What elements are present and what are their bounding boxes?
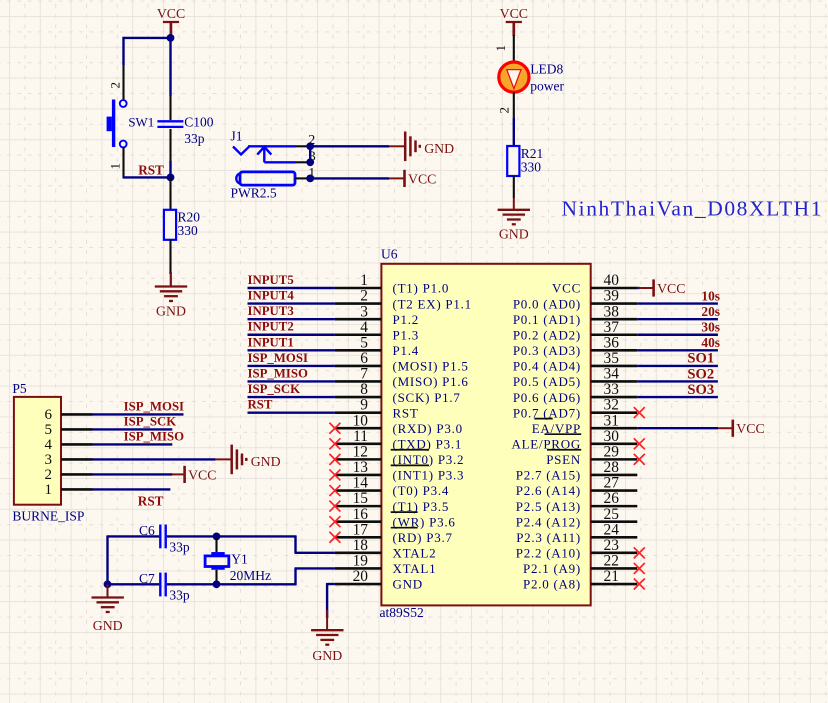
svg-text:33p: 33p (184, 131, 205, 146)
wire (93, 488, 171, 490)
pin 3 (J1) (296, 161, 310, 163)
svg-text:2: 2 (108, 82, 123, 89)
wire (309, 146, 311, 162)
pin 12 (U6) (INT0) P3.2 (335, 458, 382, 461)
wire (123, 176, 171, 178)
svg-text:GND: GND (393, 577, 423, 592)
pin 2 (P5) (61, 473, 93, 476)
svg-text:31: 31 (604, 412, 619, 429)
wire (248, 396, 335, 398)
svg-text:at89S52: at89S52 (380, 605, 424, 620)
svg-text:VCC: VCC (157, 6, 185, 21)
wire (310, 177, 389, 179)
svg-text:INPUT2: INPUT2 (248, 320, 294, 334)
ground GND (crystal) (92, 598, 124, 613)
svg-text:P2.0 (A8): P2.0 (A8) (523, 577, 581, 592)
pin 35 (U6) P0.4 (AD4) (591, 365, 638, 368)
wire (327, 583, 335, 585)
wire (248, 365, 335, 367)
node junction (167, 174, 175, 182)
node junction (104, 580, 112, 588)
svg-text:P0.0 (AD0): P0.0 (AD0) (513, 296, 581, 311)
svg-text:2: 2 (360, 288, 368, 305)
svg-text:INPUT5: INPUT5 (248, 273, 294, 287)
svg-text:INPUT3: INPUT3 (248, 304, 294, 318)
svg-text:8: 8 (360, 381, 368, 398)
svg-text:30: 30 (604, 428, 620, 445)
pin 37 (U6) P0.2 (AD2) (591, 333, 638, 336)
pin 2 (U6) (T2 EX) P1.1 (335, 302, 382, 305)
svg-text:32: 32 (604, 397, 619, 414)
pin 36 (U6) P0.3 (AD3) (591, 349, 638, 352)
pin 6 (P5) (61, 413, 93, 416)
svg-text:33: 33 (604, 381, 620, 398)
svg-text:P0.4 (AD4): P0.4 (AD4) (513, 359, 581, 374)
pin 20 (U6) GND (335, 583, 382, 586)
svg-text:18: 18 (353, 537, 369, 554)
svg-text:J1: J1 (231, 129, 243, 144)
wire (108, 583, 160, 585)
svg-text:20s: 20s (701, 304, 720, 319)
node junction (306, 142, 314, 150)
svg-text:21: 21 (604, 568, 619, 585)
LED LED8 (513, 35, 515, 62)
pin 21 (U6) P2.0 (A8) (591, 583, 638, 586)
pin 19 (U6) XTAL1 (335, 567, 382, 570)
pin 1 (J1) (295, 177, 311, 179)
wire (93, 443, 173, 445)
resistor R20 (169, 177, 171, 210)
pin 8 (U6) (SCK) P1.7 (335, 396, 382, 399)
no-connect X (634, 407, 645, 418)
svg-text:11: 11 (353, 428, 368, 445)
svg-text:14: 14 (353, 475, 369, 492)
svg-text:6: 6 (360, 350, 368, 367)
svg-text:ISP_SCK: ISP_SCK (124, 415, 177, 429)
svg-text:RST: RST (138, 494, 164, 509)
svg-text:RST: RST (393, 405, 419, 420)
svg-text:22: 22 (604, 553, 619, 570)
svg-text:P5: P5 (12, 381, 27, 396)
overline INT1 (pin 13) (391, 464, 429, 466)
svg-text:ISP_MOSI: ISP_MOSI (248, 351, 308, 365)
svg-text:ISP_SCK: ISP_SCK (248, 382, 301, 396)
capacitor C7 (159, 573, 161, 597)
wire (513, 93, 515, 118)
svg-text:330: 330 (178, 223, 199, 238)
svg-text:C7: C7 (139, 571, 155, 586)
node junction (167, 34, 175, 42)
IC U6 at89S52 body (381, 264, 590, 606)
svg-text:VCC: VCC (657, 281, 685, 296)
wire (248, 380, 335, 382)
svg-text:5: 5 (45, 422, 53, 438)
pin 29 (U6) PSEN (591, 458, 638, 461)
wire (637, 427, 718, 429)
svg-text:33p: 33p (169, 540, 190, 555)
crystal Y1 (215, 537, 217, 552)
no-connect X (329, 532, 340, 543)
capacitor C6 (159, 525, 161, 549)
svg-text:P2.2 (A10): P2.2 (A10) (516, 546, 581, 561)
svg-text:27: 27 (604, 475, 620, 492)
svg-text:GND: GND (424, 141, 454, 156)
svg-text:5: 5 (360, 334, 368, 351)
svg-text:20: 20 (353, 568, 369, 585)
overline EA (pin 31) (534, 418, 552, 420)
node junction (213, 533, 221, 541)
svg-text:(SCK) P1.7: (SCK) P1.7 (393, 390, 461, 405)
no-connect X (329, 423, 340, 434)
no-connect X (329, 501, 340, 512)
no-connect X (329, 485, 340, 496)
pin 28 (U6) P2.7 (A15) (591, 474, 638, 477)
svg-text:GND: GND (251, 454, 281, 469)
svg-text:ISP_MOSI: ISP_MOSI (124, 400, 184, 414)
svg-text:40s: 40s (701, 335, 720, 350)
svg-text:19: 19 (353, 553, 369, 570)
svg-text:P2.4 (A12): P2.4 (A12) (516, 514, 581, 529)
wire (93, 428, 173, 430)
svg-text:15: 15 (353, 490, 369, 507)
svg-text:P0.6 (AD6): P0.6 (AD6) (513, 390, 581, 405)
svg-text:power: power (530, 79, 564, 94)
ground GND (U6 pin 20) (311, 630, 343, 645)
connector P5 body (14, 397, 61, 505)
node junction (213, 580, 221, 588)
pin 1 (P5) (61, 488, 93, 491)
svg-text:P2.5 (A13): P2.5 (A13) (516, 499, 581, 514)
no-connect X (329, 454, 340, 465)
pin 27 (U6) P2.6 (A14) (591, 489, 638, 492)
svg-text:BURNE_ISP: BURNE_ISP (12, 509, 84, 524)
svg-text:PSEN: PSEN (546, 452, 581, 467)
wire (106, 535, 108, 585)
pin 5 (U6) P1.4 (335, 349, 382, 352)
pin 16 (U6) (WR) P3.6 (335, 520, 382, 523)
svg-text:P2.3 (A11): P2.3 (A11) (516, 530, 581, 545)
svg-text:GND: GND (93, 618, 123, 633)
svg-text:XTAL2: XTAL2 (393, 546, 437, 561)
wire (93, 473, 173, 475)
svg-text:P0.3 (AD3): P0.3 (AD3) (513, 343, 581, 358)
pin 3 (P5) (61, 458, 93, 461)
power port VCC (pin 40) (652, 279, 655, 296)
ground GND (P5 pin 3) (232, 445, 247, 475)
wire (167, 583, 296, 585)
power port VCC (P5 pin 2) (183, 466, 186, 483)
svg-text:9: 9 (360, 397, 368, 414)
svg-text:330: 330 (521, 160, 542, 175)
svg-text:ISP_MISO: ISP_MISO (124, 430, 184, 444)
svg-text:10: 10 (353, 412, 369, 429)
wire (248, 318, 335, 320)
svg-text:39: 39 (604, 288, 620, 305)
no-connect X (634, 438, 645, 449)
pin 1 (U6) (T1) P1.0 (335, 287, 382, 290)
wire (294, 535, 296, 552)
pin 38 (U6) P0.1 (AD1) (591, 318, 638, 321)
svg-text:P2.1 (A9): P2.1 (A9) (523, 561, 581, 576)
svg-text:GND: GND (499, 227, 529, 242)
pin 7 (U6) (MISO) P1.6 (335, 380, 382, 383)
no-connect X (329, 469, 340, 480)
no-connect X (329, 516, 340, 527)
pin 39 (U6) P0.0 (AD0) (591, 302, 638, 305)
svg-text:P1.3: P1.3 (393, 327, 419, 342)
svg-text:1: 1 (493, 45, 508, 52)
svg-text:30s: 30s (701, 320, 720, 335)
wire (169, 272, 171, 274)
pin 4 (U6) P1.3 (335, 333, 382, 336)
svg-text:(T0) P3.4: (T0) P3.4 (393, 483, 450, 498)
svg-text:36: 36 (604, 334, 620, 351)
svg-text:(RXD) P3.0: (RXD) P3.0 (393, 421, 463, 436)
svg-text:SW1: SW1 (128, 115, 154, 129)
wire (248, 334, 335, 336)
svg-text:VCC: VCC (500, 6, 528, 21)
wire (122, 37, 124, 65)
svg-text:VCC: VCC (736, 421, 764, 436)
resistor R21 (507, 146, 519, 176)
wire (93, 413, 184, 415)
svg-text:VCC: VCC (188, 467, 216, 482)
node junction (306, 175, 314, 183)
wire (637, 302, 718, 304)
ground GND (R20) (155, 287, 187, 302)
svg-text:3: 3 (45, 452, 53, 468)
svg-text:C100: C100 (184, 114, 214, 129)
svg-text:4: 4 (360, 319, 368, 336)
svg-text:P1.4: P1.4 (393, 343, 419, 358)
svg-text:28: 28 (604, 459, 620, 476)
svg-text:(MISO) P1.6: (MISO) P1.6 (393, 374, 469, 389)
svg-text:XTAL1: XTAL1 (393, 561, 437, 576)
pin 30 (U6) ALE/PROG (591, 442, 638, 445)
pin 14 (U6) (T0) P3.4 (335, 489, 382, 492)
svg-text:SO2: SO2 (687, 366, 714, 382)
svg-text:INPUT1: INPUT1 (248, 335, 294, 349)
svg-text:PWR2.5: PWR2.5 (231, 186, 277, 201)
pin 17 (U6) (RD) P3.7 (335, 536, 382, 539)
svg-text:34: 34 (604, 366, 620, 383)
svg-text:16: 16 (353, 506, 369, 523)
svg-text:C6: C6 (139, 523, 155, 538)
overline WR (pin 16) (391, 511, 418, 513)
wire (248, 411, 335, 413)
pin 5 (P5) (61, 428, 93, 431)
pin 25 (U6) P2.4 (A12) (591, 520, 638, 523)
svg-text:(MOSI) P1.5: (MOSI) P1.5 (393, 359, 469, 374)
wire (108, 535, 160, 537)
svg-text:1: 1 (360, 272, 368, 289)
svg-text:U6: U6 (381, 247, 398, 262)
pin 24 (U6) P2.3 (A11) (591, 536, 638, 539)
wire (637, 287, 639, 289)
svg-text:INPUT4: INPUT4 (248, 289, 295, 303)
svg-text:3: 3 (360, 303, 368, 320)
svg-text:23: 23 (604, 537, 620, 554)
wire (295, 552, 335, 554)
pin 3 (U6) P1.2 (335, 318, 382, 321)
svg-text:P1.2: P1.2 (393, 312, 419, 327)
pin 4 (P5) (61, 443, 93, 446)
wire (93, 458, 216, 460)
switch SW1 (122, 65, 124, 100)
wire (637, 396, 718, 398)
wire (637, 349, 718, 351)
wire (107, 584, 109, 597)
wire (248, 349, 335, 351)
pin 13 (U6) (INT1) P3.3 (335, 474, 382, 477)
power port VCC (pin 31) (731, 420, 734, 437)
pin 34 (U6) P0.5 (AD5) (591, 380, 638, 383)
svg-text:LED8: LED8 (530, 62, 563, 77)
pin 33 (U6) P0.6 (AD6) (591, 396, 638, 399)
ground GND (J1) (405, 132, 420, 162)
node junction (306, 158, 314, 166)
pin 22 (U6) P2.1 (A9) (591, 567, 638, 570)
svg-text:35: 35 (604, 350, 620, 367)
wire (513, 198, 515, 210)
wire (294, 568, 296, 585)
pin 18 (U6) XTAL2 (335, 552, 382, 555)
svg-text:6: 6 (45, 407, 53, 423)
svg-text:10s: 10s (701, 288, 720, 303)
wire (295, 567, 335, 569)
no-connect X (634, 547, 645, 558)
svg-text:SO3: SO3 (687, 382, 714, 398)
pin 10 (U6) (RXD) P3.0 (335, 427, 382, 430)
svg-text:P2.7 (A15): P2.7 (A15) (516, 468, 581, 483)
svg-text:4: 4 (45, 437, 53, 453)
overline PROG (pin 30) (545, 433, 582, 435)
svg-text:Y1: Y1 (231, 551, 248, 566)
svg-text:20MHz: 20MHz (230, 568, 271, 583)
svg-text:38: 38 (604, 303, 620, 320)
wire (248, 302, 335, 304)
pin 11 (U6) (TXD) P3.1 (335, 442, 382, 445)
svg-text:SO1: SO1 (687, 351, 714, 367)
wire (123, 37, 172, 39)
capacitor C100 (169, 96, 171, 120)
overline PSEN (pin 29) (547, 449, 581, 451)
svg-text:ISP_MISO: ISP_MISO (248, 366, 308, 380)
svg-text:VCC: VCC (552, 281, 581, 296)
svg-text:33p: 33p (169, 588, 190, 603)
no-connect X (634, 454, 645, 465)
svg-text:(RD) P3.7: (RD) P3.7 (393, 530, 453, 545)
svg-text:2: 2 (496, 107, 511, 114)
wire (637, 365, 718, 367)
overline RD (pin 17) (391, 527, 418, 529)
svg-text:P0.2 (AD2): P0.2 (AD2) (513, 327, 581, 342)
svg-text:RST: RST (248, 398, 273, 412)
svg-text:29: 29 (604, 443, 620, 460)
svg-text:(T2 EX) P1.1: (T2 EX) P1.1 (393, 296, 472, 311)
svg-text:12: 12 (353, 443, 368, 460)
svg-text:25: 25 (604, 506, 620, 523)
svg-text:1: 1 (45, 482, 53, 498)
svg-text:26: 26 (604, 490, 620, 507)
svg-text:17: 17 (353, 521, 369, 538)
svg-text:(INT1) P3.3: (INT1) P3.3 (393, 468, 465, 483)
no-connect X (634, 563, 645, 574)
pin 2 (J1) (296, 145, 310, 147)
wire (167, 535, 296, 537)
svg-text:RST: RST (138, 163, 164, 178)
ground GND (R21) (498, 210, 530, 225)
pin 23 (U6) P2.2 (A10) (591, 552, 638, 555)
wire (169, 35, 171, 96)
svg-text:7: 7 (360, 366, 368, 383)
svg-text:VCC: VCC (408, 171, 436, 186)
svg-text:(T1) P1.0: (T1) P1.0 (393, 281, 450, 296)
wire (248, 287, 335, 289)
no-connect X (329, 438, 340, 449)
svg-text:P0.1 (AD1): P0.1 (AD1) (513, 312, 581, 327)
pin 26 (U6) P2.5 (A13) (591, 505, 638, 508)
svg-text:GND: GND (156, 304, 186, 319)
wire (637, 318, 718, 320)
wire (310, 145, 389, 147)
power port VCC (J1) (403, 170, 406, 187)
wire (169, 161, 171, 178)
svg-text:P2.6 (A14): P2.6 (A14) (516, 483, 581, 498)
svg-text:P0.5 (AD5): P0.5 (AD5) (513, 374, 581, 389)
no-connect X (634, 579, 645, 590)
svg-text:24: 24 (604, 521, 620, 538)
svg-text:13: 13 (353, 459, 369, 476)
overline INT0 (pin 12) (391, 449, 429, 451)
pin 6 (U6) (MOSI) P1.5 (335, 365, 382, 368)
pin 32 (U6) P0.7 (AD7) (591, 411, 638, 414)
svg-text:37: 37 (604, 319, 620, 336)
svg-text:1: 1 (108, 163, 123, 170)
wire (637, 334, 718, 336)
svg-text:GND: GND (312, 648, 342, 663)
wire (637, 380, 718, 382)
pin 15 (U6) (T1) P3.5 (335, 505, 382, 508)
pin 31 (U6) EA/VPP (591, 427, 638, 430)
svg-text:40: 40 (604, 272, 620, 289)
pin 9 (U6) RST (335, 411, 382, 414)
pin 40 (U6) VCC (591, 287, 638, 290)
svg-text:2: 2 (45, 467, 53, 483)
svg-text:NinhThaiVan_D08XLTH1: NinhThaiVan_D08XLTH1 (562, 197, 822, 221)
